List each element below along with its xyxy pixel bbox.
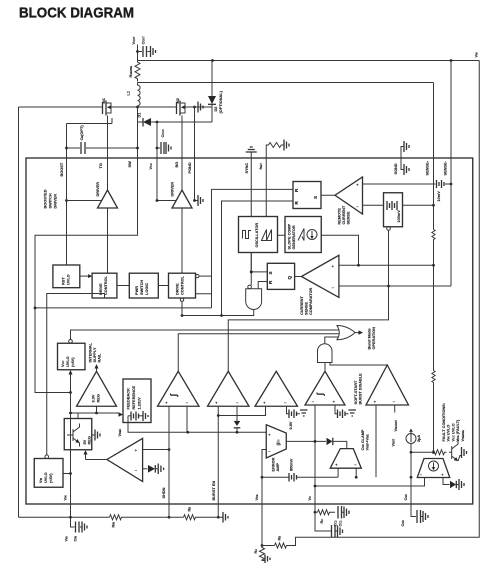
svg-text:CVCC: CVCC	[161, 129, 165, 137]
feedback divider R1 R2	[261, 504, 263, 546]
wire to 5V reg rail	[71, 393, 120, 414]
wire top sense-	[138, 82, 434, 84]
oscillator box	[239, 217, 278, 253]
svg-text:SW: SW	[128, 161, 132, 168]
slope comp box	[285, 217, 321, 253]
battery fb reference	[128, 415, 131, 417]
svg-text:CSS: CSS	[401, 520, 405, 527]
inductor L1	[137, 83, 139, 86]
wire EA1 apex to OR	[178, 334, 339, 372]
wire SW internal	[35, 159, 138, 393]
wire 5V reg output arrow from comparator	[85, 454, 87, 460]
svg-text:RSENSE: RSENSE	[129, 66, 133, 78]
wire BURST EN line	[217, 432, 219, 517]
svg-text:−: −	[186, 401, 189, 406]
svg-text:CB(OPT): CB(OPT)	[80, 125, 84, 141]
svg-text:VCC: VCC	[149, 163, 153, 169]
svg-text:−: −	[284, 401, 287, 406]
svg-text:ERROR: ERROR	[272, 457, 276, 471]
svg-text:+: +	[263, 401, 266, 406]
svg-text:REG: REG	[97, 394, 101, 402]
svg-text:(<4V): (<4V)	[71, 357, 75, 367]
wire latch U1 input R1	[212, 189, 294, 308]
op-amp EA1	[158, 371, 200, 406]
wire right outer VOUT return	[296, 61, 480, 546]
svg-text:SYNC: SYNC	[245, 163, 249, 174]
capacitor CVCC	[156, 122, 158, 159]
wire EA out to diode	[286, 440, 326, 442]
svg-text:VIN UVLO: VIN UVLO	[447, 425, 451, 442]
svg-text:CURRENT: CURRENT	[300, 296, 304, 315]
wire AND input stubs	[325, 363, 387, 372]
svg-text:−: −	[356, 205, 359, 210]
gate OR burst	[337, 326, 355, 340]
svg-text:+: +	[165, 401, 168, 406]
op-amp EA2	[208, 371, 250, 406]
wire AND out to OR	[325, 337, 339, 344]
wire NAND out to reset bus	[182, 310, 254, 316]
diode SHDN ref to ground	[143, 468, 148, 470]
wire burst comp stubs	[375, 405, 377, 477]
svg-text:VBURST: VBURST	[394, 420, 398, 432]
svg-text:PWR: PWR	[135, 286, 139, 295]
svg-text:VSENSE: VSENSE	[461, 430, 465, 442]
svg-text:RB: RB	[188, 507, 192, 512]
wire SYNC down	[251, 159, 267, 272]
svg-text:+: +	[268, 433, 271, 438]
wire remote sense + input with offset battery	[363, 183, 436, 185]
svg-text:CC1: CC1	[339, 520, 343, 527]
svg-text:LOGIC: LOGIC	[145, 283, 149, 295]
svg-text:+: +	[215, 401, 218, 406]
capacitor CC1	[338, 506, 342, 519]
box VIN UVLO	[34, 459, 63, 488]
svg-text:CIN: CIN	[74, 536, 78, 542]
svg-text:SUPPLY: SUPPLY	[93, 347, 97, 362]
svg-text:OPERATION: OPERATION	[372, 327, 376, 350]
capacitor CSS	[411, 504, 416, 517]
wire BOOST to driver	[65, 199, 68, 202]
wire VC compensation	[314, 485, 317, 488]
diode D2 (optional)	[211, 61, 213, 123]
svg-text:10mV: 10mV	[437, 191, 441, 202]
capacitor CIN	[71, 517, 75, 527]
box drive control 1	[92, 273, 117, 298]
ground SGND inside	[401, 159, 404, 170]
svg-text:CONTROL: CONTROL	[104, 275, 108, 295]
transistor fault Q1	[449, 439, 458, 461]
svg-text:PGND: PGND	[188, 162, 192, 173]
svg-text:CSS CLAMP: CSS CLAMP	[361, 429, 365, 450]
node VOUT	[137, 45, 139, 62]
svg-text:UVLO: UVLO	[66, 356, 70, 367]
svg-text:+: +	[335, 463, 338, 468]
svg-text:TG: TG	[99, 163, 103, 168]
svg-text:RB: RB	[278, 536, 282, 541]
svg-text:REMOTE: REMOTE	[338, 208, 342, 225]
gate AND burst	[318, 344, 333, 363]
wire burst amp + leg to diode gnd	[443, 478, 450, 485]
svg-text:RST: RST	[62, 277, 66, 285]
box current limit offset	[384, 193, 403, 227]
svg-text:−: −	[393, 400, 396, 405]
svg-text:−: −	[354, 463, 357, 468]
wire VCC UVLO bottom arrow	[70, 374, 72, 393]
svg-text:+: +	[356, 183, 359, 188]
wire left VIN rail	[18, 107, 20, 517]
svg-text:VC: VC	[308, 496, 312, 501]
svg-text:RA: RA	[254, 549, 258, 554]
capacitor COUT	[138, 51, 151, 53]
svg-text:SWITCH: SWITCH	[140, 280, 144, 295]
svg-text:D2: D2	[214, 107, 218, 112]
wire drive control2 bubble right	[196, 274, 199, 277]
svg-text:+: +	[332, 264, 335, 269]
svg-text:UVLO: UVLO	[67, 274, 71, 285]
svg-text:S: S	[313, 196, 318, 199]
wire EA2 left stub to burst en	[217, 406, 219, 432]
svg-text:−: −	[135, 468, 138, 473]
wire EA4 left stub = VC line	[314, 405, 316, 504]
resistor fSET	[266, 145, 267, 159]
latch U1 (PWM latch)	[293, 182, 321, 209]
svg-text:SENSE: SENSE	[305, 302, 309, 315]
driver BG	[172, 190, 192, 208]
wire sense- down	[450, 159, 452, 246]
svg-text:−: −	[236, 401, 239, 406]
wire cs comp out	[295, 276, 302, 278]
wire drive control2 right stub	[196, 293, 212, 295]
svg-text:D1: D1	[138, 112, 142, 118]
svg-text:DRIVER: DRIVER	[171, 182, 175, 197]
current source 2uA	[406, 434, 416, 444]
svg-text:+: +	[441, 473, 444, 478]
op-amp CSS clamp	[330, 449, 361, 469]
op-amp EA3	[255, 371, 298, 406]
driver TG	[98, 190, 118, 208]
resistor R1	[260, 546, 265, 562]
svg-text:GENERATOR: GENERATOR	[292, 225, 296, 249]
svg-text:VFB: VFB	[255, 494, 259, 500]
wire latch U1 input R2	[222, 201, 294, 316]
svg-text:REFERENCE: REFERENCE	[132, 385, 136, 409]
svg-text:REG: REG	[88, 436, 92, 444]
wire box links	[117, 285, 169, 287]
wire VIN UVLO top	[47, 294, 105, 455]
svg-text:VIN: VIN	[65, 536, 69, 541]
diode EA clamp	[327, 438, 333, 445]
svg-text:BLOCK DIAGRAM: BLOCK DIAGRAM	[19, 5, 134, 22]
box 5V REG with transistor	[64, 419, 92, 450]
svg-text:VIN: VIN	[64, 495, 68, 500]
wire run line	[35, 307, 212, 309]
svg-text:800mV: 800mV	[290, 458, 294, 471]
op-amp burst current	[417, 459, 450, 478]
wire fSET down	[265, 159, 267, 217]
op-amp remote current sense	[335, 177, 363, 214]
svg-text:RAIL: RAIL	[98, 353, 102, 363]
latch U2	[267, 263, 294, 289]
capacitor CB	[67, 118, 113, 124]
comparator current sense	[301, 255, 339, 297]
box VCC UVLO	[58, 343, 86, 370]
bottom rail with divider	[19, 516, 110, 518]
svg-text:SLOPE COMP: SLOPE COMP	[288, 223, 292, 249]
svg-text:DRIVER: DRIVER	[54, 194, 58, 209]
op-amp burst comparator	[366, 365, 409, 405]
wire remote sense - input	[363, 204, 434, 206]
svg-text:VBST: VBST	[392, 438, 396, 446]
svg-text:VREF+VBE: VREF+VBE	[366, 434, 370, 450]
wire sense+ down	[433, 159, 435, 230]
resistor to fault transistor	[411, 451, 433, 453]
svg-text:100mV: 100mV	[397, 210, 401, 223]
wire VIN UVLO out	[63, 473, 71, 475]
wire drive control2 bubble bottom	[180, 298, 183, 301]
wire cs comp plus	[339, 264, 434, 266]
svg-text:RC: RC	[320, 519, 324, 524]
svg-text:SGND: SGND	[394, 163, 398, 174]
svg-text:CSS: CSS	[404, 494, 408, 501]
wire top sense+	[138, 60, 480, 62]
box pwr switch logic	[129, 273, 158, 298]
svg-text:−: −	[312, 400, 315, 405]
box feedback reference	[123, 379, 151, 423]
svg-text:+: +	[135, 448, 138, 453]
svg-text:+: +	[333, 400, 336, 405]
svg-text:BG: BG	[175, 162, 179, 168]
svg-text:(<4V): (<4V)	[49, 473, 53, 483]
diode EA2 minus	[236, 406, 238, 421]
wire SHDN line	[168, 406, 170, 517]
ground at M2 drain	[195, 106, 198, 108]
svg-text:VCC UVLO: VCC UVLO	[451, 423, 455, 441]
svg-text:INTERNAL: INTERNAL	[89, 342, 93, 362]
svg-text:2µA: 2µA	[417, 435, 421, 442]
svg-text:−: −	[268, 449, 271, 454]
wire fb ref to EA+	[128, 416, 267, 432]
wire latch U1 output	[321, 194, 335, 196]
wire EA4 stubs with battery	[335, 405, 337, 414]
gate NAND clock	[248, 285, 252, 289]
ground SYNC	[250, 153, 252, 159]
wire OR output arrow	[355, 332, 360, 334]
capacitor CC2 branch	[315, 512, 331, 531]
wire internal rail to OR	[71, 330, 340, 340]
svg-text:VIN: VIN	[475, 52, 479, 57]
comparator SHDN	[107, 438, 143, 481]
svg-text:Q: Q	[287, 276, 292, 280]
svg-text:VOUT: VOUT	[132, 36, 136, 44]
svg-text:VIN: VIN	[39, 478, 43, 483]
op-amp EA4	[305, 371, 345, 405]
wire SW node row	[19, 106, 103, 108]
svg-text:UVLO: UVLO	[44, 472, 48, 483]
op-amp error amp gm	[266, 425, 286, 458]
ground SGND outside	[401, 147, 404, 159]
svg-text:SENSE−: SENSE−	[444, 160, 448, 175]
wire VIN line down	[70, 413, 72, 527]
svg-text:BURST EN: BURST EN	[212, 481, 216, 501]
ground 5V reg	[92, 434, 95, 436]
wire latch U2 R elbow	[258, 282, 267, 289]
svg-text:VCC: VCC	[61, 361, 65, 367]
svg-text:5V: 5V	[83, 439, 87, 444]
op-amp 3.3V regulator	[77, 371, 117, 406]
resistor RC	[318, 510, 336, 515]
svg-text:OSCILLATOR: OSCILLATOR	[255, 223, 259, 248]
svg-text:1.231V: 1.231V	[138, 397, 142, 410]
svg-text:COUT: COUT	[142, 36, 146, 45]
svg-text:−: −	[332, 286, 335, 291]
svg-text:+: +	[374, 400, 377, 405]
wire EA3 stubs with battery	[287, 406, 289, 414]
wire current limit down to bus	[228, 230, 388, 371]
wire rail into fb box	[119, 412, 124, 416]
svg-text:(OPTIONAL): (OPTIONAL)	[219, 90, 223, 113]
wire EA- to VFB	[262, 450, 266, 505]
svg-text:Burst Mode: Burst Mode	[368, 328, 372, 349]
chip box	[26, 158, 473, 504]
svg-text:DRIVE: DRIVE	[176, 283, 180, 295]
svg-text:BOOST: BOOST	[60, 162, 64, 176]
svg-text:CONTROL: CONTROL	[181, 275, 185, 295]
svg-text:S: S	[268, 271, 273, 274]
box drive control 2	[169, 273, 196, 298]
wire EA1 input stubs	[186, 406, 188, 432]
box RST UVLO	[53, 265, 80, 288]
svg-text:fSET: fSET	[259, 163, 263, 170]
resistor RSENSE	[135, 59, 140, 82]
wire cs comp minus	[339, 246, 451, 287]
svg-text:SWITCH: SWITCH	[49, 193, 53, 208]
wire sense+ drop	[433, 83, 435, 159]
diode D1	[142, 118, 144, 127]
svg-text:BOOSTED: BOOSTED	[44, 189, 48, 208]
wire VCC to driver	[157, 159, 176, 201]
svg-text:−: −	[420, 473, 423, 478]
svg-text:SENSE: SENSE	[347, 211, 351, 224]
svg-text:SENSE+: SENSE+	[426, 160, 430, 175]
svg-text:VFB (FAULT): VFB (FAULT)	[456, 419, 460, 441]
svg-text:FAULT CONDITIONS:: FAULT CONDITIONS:	[442, 403, 446, 442]
svg-text:VREF: VREF	[118, 428, 122, 436]
svg-text:RIN: RIN	[112, 522, 116, 528]
svg-text:SOFT-START: SOFT-START	[354, 380, 358, 404]
ground at COUT	[151, 46, 156, 57]
svg-text:SHDN: SHDN	[162, 487, 166, 498]
wire PGND to ground	[195, 107, 198, 201]
svg-text:COMPARATOR: COMPARATOR	[309, 287, 313, 315]
resistor sense filter	[432, 230, 435, 242]
svg-text:FEEDBACK: FEEDBACK	[127, 388, 131, 410]
svg-text:0.8V: 0.8V	[289, 421, 293, 429]
svg-text:CURRENT: CURRENT	[342, 205, 346, 224]
wire D1 row	[137, 107, 139, 159]
wire SHDN comp + input	[143, 449, 169, 451]
svg-text:DRIVER: DRIVER	[96, 182, 100, 197]
svg-text:AMP: AMP	[276, 463, 280, 472]
wire RST arrow	[80, 275, 90, 277]
svg-text:3.3V: 3.3V	[92, 394, 96, 402]
wire slope comp out	[321, 235, 358, 265]
svg-text:BURST DISABLE: BURST DISABLE	[359, 373, 363, 405]
